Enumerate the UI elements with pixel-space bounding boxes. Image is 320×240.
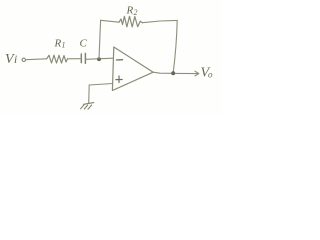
capacitor C: [81, 53, 85, 63]
svg-text:C: C: [80, 37, 88, 49]
wire C to op-amp inverting input: [86, 58, 113, 59]
node Vo label: [201, 66, 214, 81]
label R1: [54, 38, 66, 50]
svg-text:R: R: [126, 5, 134, 17]
wire output with arrow to Vo: [175, 71, 199, 76]
wire ground vertical: [88, 85, 91, 103]
junction node A (inverting input / feedback tap): [97, 57, 101, 61]
wire feedback top left: [101, 20, 119, 22]
wire input to R1: [26, 58, 47, 61]
wire op-amp output: [153, 72, 173, 73]
svg-text:R: R: [54, 38, 62, 50]
op-amp minus pin mark: [116, 59, 122, 61]
wire non-inverting input to ground corner: [89, 84, 112, 86]
wire R1 to C: [68, 58, 80, 60]
resistor R2: [119, 16, 143, 27]
input terminal: [22, 58, 25, 61]
op-amp plus pin mark: [116, 76, 122, 83]
ground: [81, 103, 94, 110]
wire feedback top right: [143, 20, 178, 22]
svg-text:o: o: [208, 70, 213, 80]
node Vi label: [5, 52, 17, 67]
svg-text:1: 1: [62, 41, 66, 50]
svg-text:2: 2: [134, 8, 138, 17]
op-amp U1: [112, 47, 153, 91]
svg-text:i: i: [14, 54, 17, 66]
wire feedback right vertical: [173, 20, 177, 72]
label R2: [126, 5, 138, 17]
junction node output: [171, 71, 175, 75]
wire feedback left vertical: [99, 20, 101, 59]
resistor R1: [47, 55, 68, 63]
